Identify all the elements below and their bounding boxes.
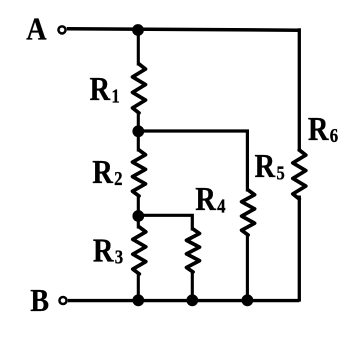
svg-text:R5: R5 (255, 147, 285, 185)
svg-text:B: B (30, 282, 49, 318)
wire: lower junction down to R3 (137, 216, 140, 229)
wire: top junction down to R1 (137, 30, 140, 66)
wire: R2 bottom to lower junction (137, 195, 140, 217)
junction node between R2 and R3 (132, 210, 144, 222)
svg-text:R2: R2 (92, 152, 122, 190)
svg-text:R3: R3 (93, 231, 123, 269)
resistor R5 (242, 190, 255, 235)
junction node R4 at bottom rail (186, 294, 198, 306)
wire: middle junction across to R5 branch and down (138, 131, 247, 192)
wire: terminal A to top-right corner (67, 29, 299, 30)
wire: lower junction across to R4 branch and down (138, 215, 192, 230)
terminal B (open circle) (59, 297, 66, 304)
svg-text:R1: R1 (90, 70, 120, 108)
terminal A (open circle) (58, 26, 65, 33)
junction node between R1 and R2 (132, 125, 144, 137)
resistor R3 (133, 227, 146, 274)
wire: right branch top corner down to R6 (298, 28, 301, 151)
svg-text:R6: R6 (308, 110, 338, 148)
resistor R2 (133, 150, 146, 196)
resistor R6 (293, 150, 306, 199)
junction node R3 at bottom rail (132, 294, 144, 306)
resistor R4 (187, 229, 200, 272)
wire: R3 bottom to bottom rail (137, 273, 140, 301)
wire: R5 bottom to bottom rail (246, 234, 249, 301)
wire: R1 bottom to middle junction (137, 112, 140, 132)
svg-text:R4: R4 (195, 180, 225, 218)
wire: middle junction down to R2 (137, 131, 140, 152)
wire: R6 bottom down to bottom-right corner (298, 196, 301, 302)
wire: R4 bottom to bottom rail (191, 271, 194, 301)
resistor R1 (133, 64, 146, 113)
svg-text:A: A (26, 11, 47, 47)
junction node at top of R1 branch (132, 24, 144, 36)
wire: terminal B along bottom rail to right corner (68, 299, 299, 302)
junction node R5 at bottom rail (242, 294, 254, 306)
